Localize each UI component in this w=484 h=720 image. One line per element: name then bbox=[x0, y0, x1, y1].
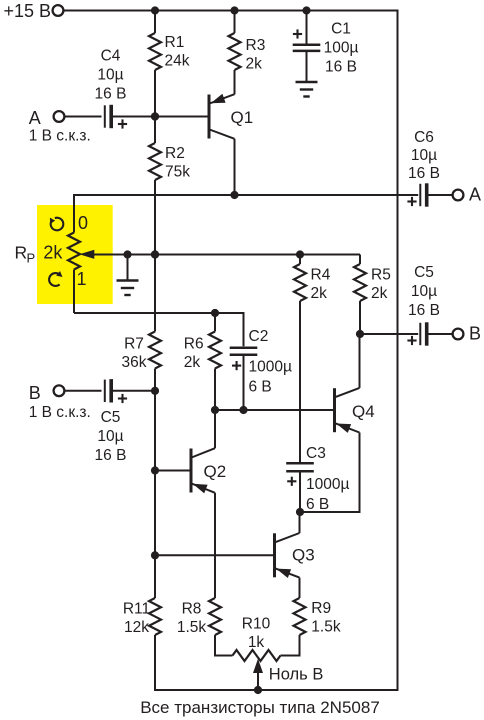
svg-text:1000µ: 1000µ bbox=[306, 476, 349, 493]
svg-text:2k: 2k bbox=[43, 243, 63, 263]
svg-text:Q4: Q4 bbox=[352, 402, 375, 421]
svg-text:1000µ: 1000µ bbox=[249, 359, 292, 376]
svg-text:16 В: 16 В bbox=[95, 447, 127, 464]
svg-text:16 В: 16 В bbox=[95, 85, 127, 102]
svg-text:0: 0 bbox=[78, 213, 88, 233]
svg-text:6 В: 6 В bbox=[249, 378, 272, 395]
svg-text:100µ: 100µ bbox=[324, 40, 359, 57]
svg-text:Ноль В: Ноль В bbox=[269, 666, 324, 684]
svg-text:2k: 2k bbox=[371, 285, 388, 302]
svg-text:10µ: 10µ bbox=[97, 66, 123, 83]
svg-text:C5: C5 bbox=[414, 264, 434, 281]
svg-text:1k: 1k bbox=[248, 634, 265, 651]
svg-text:B: B bbox=[469, 324, 481, 344]
svg-text:R11: R11 bbox=[123, 601, 150, 618]
svg-text:C2: C2 bbox=[249, 328, 269, 345]
svg-text:P: P bbox=[27, 250, 36, 265]
svg-text:1.5k: 1.5k bbox=[177, 619, 207, 636]
svg-text:16 В: 16 В bbox=[408, 165, 440, 182]
svg-text:Q2: Q2 bbox=[204, 462, 227, 481]
svg-text:R3: R3 bbox=[246, 37, 266, 54]
svg-text:10µ: 10µ bbox=[411, 147, 437, 164]
svg-text:A: A bbox=[29, 108, 41, 128]
svg-text:C3: C3 bbox=[306, 445, 326, 462]
svg-text:2k: 2k bbox=[184, 354, 201, 371]
svg-text:2k: 2k bbox=[246, 56, 263, 73]
svg-text:+15 В: +15 В bbox=[4, 1, 52, 21]
svg-text:R9: R9 bbox=[311, 600, 331, 617]
svg-text:A: A bbox=[469, 184, 481, 204]
svg-text:1 В с.к.з.: 1 В с.к.з. bbox=[29, 404, 91, 421]
svg-text:C5: C5 bbox=[101, 409, 121, 426]
svg-text:12k: 12k bbox=[124, 619, 149, 636]
svg-text:24k: 24k bbox=[165, 53, 190, 70]
svg-text:6 В: 6 В bbox=[306, 496, 329, 513]
svg-text:16 В: 16 В bbox=[408, 302, 440, 319]
svg-text:Q1: Q1 bbox=[231, 108, 254, 127]
svg-text:C1: C1 bbox=[331, 21, 351, 38]
svg-text:1 В с.к.з.: 1 В с.к.з. bbox=[29, 128, 91, 145]
svg-text:R5: R5 bbox=[371, 267, 391, 284]
svg-text:R8: R8 bbox=[182, 601, 202, 618]
svg-text:R6: R6 bbox=[184, 336, 204, 353]
svg-text:75k: 75k bbox=[165, 164, 190, 181]
svg-text:16 В: 16 В bbox=[325, 59, 357, 76]
svg-text:1.5k: 1.5k bbox=[311, 619, 341, 636]
svg-text:R2: R2 bbox=[165, 145, 185, 162]
svg-text:36k: 36k bbox=[122, 354, 147, 371]
svg-text:2k: 2k bbox=[311, 285, 328, 302]
svg-text:10µ: 10µ bbox=[97, 428, 123, 445]
svg-text:Q3: Q3 bbox=[292, 546, 315, 565]
svg-text:C6: C6 bbox=[414, 129, 434, 146]
svg-text:C4: C4 bbox=[101, 47, 121, 64]
svg-text:1: 1 bbox=[77, 269, 87, 289]
svg-text:10µ: 10µ bbox=[411, 283, 437, 300]
svg-text:Все транзисторы типа 2N5087: Все транзисторы типа 2N5087 bbox=[140, 698, 380, 717]
svg-text:B: B bbox=[29, 383, 41, 403]
svg-text:R: R bbox=[15, 243, 28, 263]
svg-text:R7: R7 bbox=[124, 336, 144, 353]
svg-text:R4: R4 bbox=[311, 267, 331, 284]
svg-text:R1: R1 bbox=[165, 34, 185, 51]
svg-text:R10: R10 bbox=[242, 616, 271, 633]
